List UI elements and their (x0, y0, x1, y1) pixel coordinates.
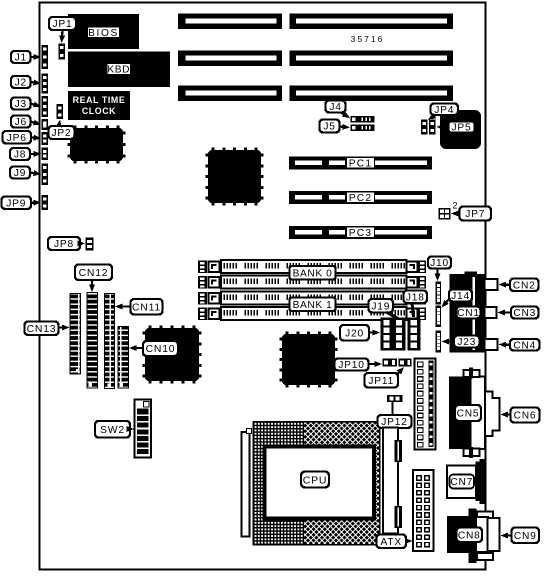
ISA slot right row 3 (290, 86, 454, 102)
SIMM socket row 3 (198, 292, 207, 305)
svg-text:CLOCK: CLOCK (82, 106, 116, 116)
svg-text:JP11: JP11 (368, 376, 394, 387)
connector J1 (42, 45, 49, 69)
chip U5 (286, 331, 289, 335)
connector J14 pins (436, 306, 442, 328)
label J18 (404, 291, 428, 304)
label J8 (10, 148, 30, 160)
label CN4 (510, 339, 540, 351)
label JP10 (335, 359, 369, 371)
chip U1 (74, 125, 77, 129)
real time clock (68, 91, 130, 120)
svg-text:PC3: PC3 (349, 228, 372, 239)
label J20 (340, 325, 369, 341)
label JP6 (3, 131, 32, 144)
ISA slot right row 1 (290, 14, 454, 30)
svg-text:J3: J3 (15, 99, 27, 110)
svg-text:J20: J20 (345, 328, 364, 339)
svg-text:J19: J19 (371, 301, 390, 312)
svg-text:J6: J6 (15, 117, 27, 128)
label BANK 1 (290, 298, 336, 312)
label JP9 (2, 197, 32, 210)
label CN3 (511, 307, 539, 319)
connector CN3 tab (485, 307, 497, 318)
connector CN1 stack (450, 274, 485, 353)
svg-text:JP1: JP1 (53, 19, 73, 30)
svg-text:J14: J14 (451, 291, 470, 302)
SIMM socket row 2 (198, 276, 207, 289)
svg-text:JP6: JP6 (7, 133, 27, 144)
label CPU (301, 472, 329, 488)
jumper JP11 pins (399, 359, 412, 367)
ISA slot right row 2 (290, 51, 454, 67)
jumper JP2 (57, 104, 64, 119)
CN5 D-sub body (485, 392, 500, 437)
label BANK 0 (290, 266, 336, 280)
jumper block J20 (381, 318, 406, 351)
label CN2 (510, 279, 539, 292)
keyboard controller KBD (68, 52, 170, 88)
label JP5 (449, 122, 475, 133)
svg-text:J5: J5 (323, 122, 335, 133)
svg-text:CN5: CN5 (457, 409, 480, 420)
label J14 (449, 290, 472, 302)
connector CN10 strip (118, 327, 129, 389)
label CN6 (511, 408, 540, 423)
svg-text:CN6: CN6 (514, 411, 537, 422)
label J9 (10, 167, 30, 179)
DIP switch SW2 (135, 400, 152, 458)
svg-text:2: 2 (453, 201, 458, 211)
svg-text:J18: J18 (406, 292, 425, 303)
connector J3 (42, 96, 49, 117)
jumper JP7 (439, 208, 451, 220)
connector header J21 (415, 359, 436, 450)
connector ATX (413, 470, 434, 551)
chip U4 (149, 325, 152, 329)
label J3 (11, 98, 31, 110)
connector CN8 (447, 516, 476, 553)
svg-text:CN10: CN10 (146, 344, 176, 355)
svg-text:PC2: PC2 (349, 193, 372, 204)
label CN10 (143, 341, 178, 356)
svg-text:BANK 1: BANK 1 (293, 300, 333, 311)
svg-text:JP9: JP9 (6, 198, 26, 209)
CN5 screw tab top (464, 370, 480, 377)
svg-text:J9: J9 (14, 168, 26, 179)
label J10 (428, 257, 451, 269)
CPU socket lever bar (242, 432, 250, 537)
svg-text:JP8: JP8 (54, 239, 74, 250)
connector J10 (436, 282, 442, 305)
ISA slot left row 1 (178, 14, 282, 30)
svg-text:J1: J1 (15, 53, 27, 64)
CN8 D-sub body (488, 518, 500, 551)
svg-text:CN9: CN9 (514, 531, 537, 542)
connector J4 (351, 116, 375, 123)
connector CN4 tab (485, 339, 498, 350)
connector J6 (42, 119, 49, 130)
ISA slot left row 2 (178, 51, 282, 67)
PCI slot PC3 (289, 226, 432, 239)
jumper JP1 (59, 44, 66, 60)
label J5 (320, 120, 340, 133)
connector CN13 strip (70, 294, 81, 375)
side connector lower (395, 506, 403, 528)
label JP11 (365, 373, 399, 388)
svg-text:CN1: CN1 (457, 308, 480, 319)
svg-text:J4: J4 (329, 102, 341, 113)
SIMM socket row 4 (198, 308, 207, 321)
label JP2 (49, 126, 75, 139)
chip U2 (212, 147, 215, 151)
svg-text:REAL TIME: REAL TIME (73, 95, 126, 105)
svg-text:JP10: JP10 (338, 360, 364, 371)
PCI slot PC2 (289, 191, 432, 204)
jumper JP4 (421, 120, 428, 135)
CPU socket (253, 421, 381, 546)
label JP4 (431, 104, 459, 116)
label J23 (454, 336, 480, 348)
label JP1 (49, 17, 76, 30)
label SW2 (95, 421, 130, 438)
svg-text:SW2: SW2 (100, 425, 125, 436)
SIMM socket row 1 (198, 261, 207, 274)
jumper JP8 (86, 238, 94, 251)
jumper JP10 (383, 359, 398, 367)
label ATX (377, 535, 407, 549)
label CN1 (457, 307, 481, 319)
connector J5 (351, 125, 375, 132)
svg-text:CN12: CN12 (79, 268, 109, 279)
label J1 (11, 51, 31, 63)
label JP8 (48, 237, 80, 250)
connector J2 (42, 74, 49, 94)
label PC2 (347, 192, 375, 203)
svg-text:CN13: CN13 (27, 324, 57, 335)
label PC1 (347, 157, 375, 168)
label CN7 (450, 475, 475, 489)
svg-text:CN7: CN7 (450, 477, 473, 488)
jumper JP12 (387, 395, 403, 402)
svg-text:KBD: KBD (107, 65, 130, 76)
svg-text:CPU: CPU (303, 474, 328, 486)
svg-text:CN11: CN11 (132, 302, 161, 313)
svg-text:35716: 35716 (351, 34, 385, 44)
label J2 (11, 76, 31, 88)
svg-text:CN2: CN2 (513, 280, 536, 291)
label CN9 (512, 528, 540, 544)
svg-text:ATX: ATX (381, 537, 402, 548)
label J4 (326, 101, 346, 113)
svg-text:CN4: CN4 (513, 340, 536, 351)
connector CN2 tab (485, 279, 498, 290)
svg-text:J8: J8 (14, 150, 26, 161)
label PC3 (347, 227, 375, 238)
label CN11 (131, 299, 163, 315)
connector J8 (42, 148, 49, 161)
connector CN7 (447, 466, 476, 499)
svg-text:JP7: JP7 (465, 209, 485, 220)
label J6 (11, 116, 31, 128)
BIOS ROM chip (68, 14, 139, 49)
connector strip below JP12 (383, 428, 398, 534)
svg-text:JP5: JP5 (452, 123, 472, 134)
label CN13 (25, 322, 59, 336)
chip JP5 block (440, 110, 481, 149)
svg-text:JP4: JP4 (434, 105, 454, 116)
ISA slot left row 3 (178, 86, 282, 102)
svg-text:CN3: CN3 (513, 308, 536, 319)
label J19 (369, 299, 394, 313)
connector CN12 strip (87, 293, 98, 389)
label CN8 (457, 528, 483, 543)
label CN12 (75, 265, 112, 281)
label JP12 (378, 415, 412, 428)
svg-text:J10: J10 (430, 258, 449, 269)
label JP7 (460, 207, 492, 221)
svg-text:J2: J2 (15, 78, 27, 89)
CN5 screw tab bottom (464, 449, 480, 457)
jumper block J20 right (408, 318, 421, 351)
connector JP6 (42, 132, 49, 145)
svg-text:CN8: CN8 (458, 530, 481, 541)
label CN5 (455, 405, 481, 421)
svg-text:BANK 0: BANK 0 (293, 268, 333, 279)
svg-text:JP2: JP2 (52, 128, 72, 139)
connector CN11 strip (105, 294, 115, 389)
connector JP9 (42, 195, 49, 210)
connector J23 pins (436, 331, 442, 353)
PCI slot PC1 (289, 157, 432, 170)
svg-text:BIOS: BIOS (88, 28, 119, 39)
svg-text:PC1: PC1 (349, 158, 372, 169)
connector J9 (42, 164, 49, 186)
svg-text:J23: J23 (457, 337, 476, 348)
connector CN5 (449, 377, 473, 450)
side connector upper (395, 440, 403, 462)
